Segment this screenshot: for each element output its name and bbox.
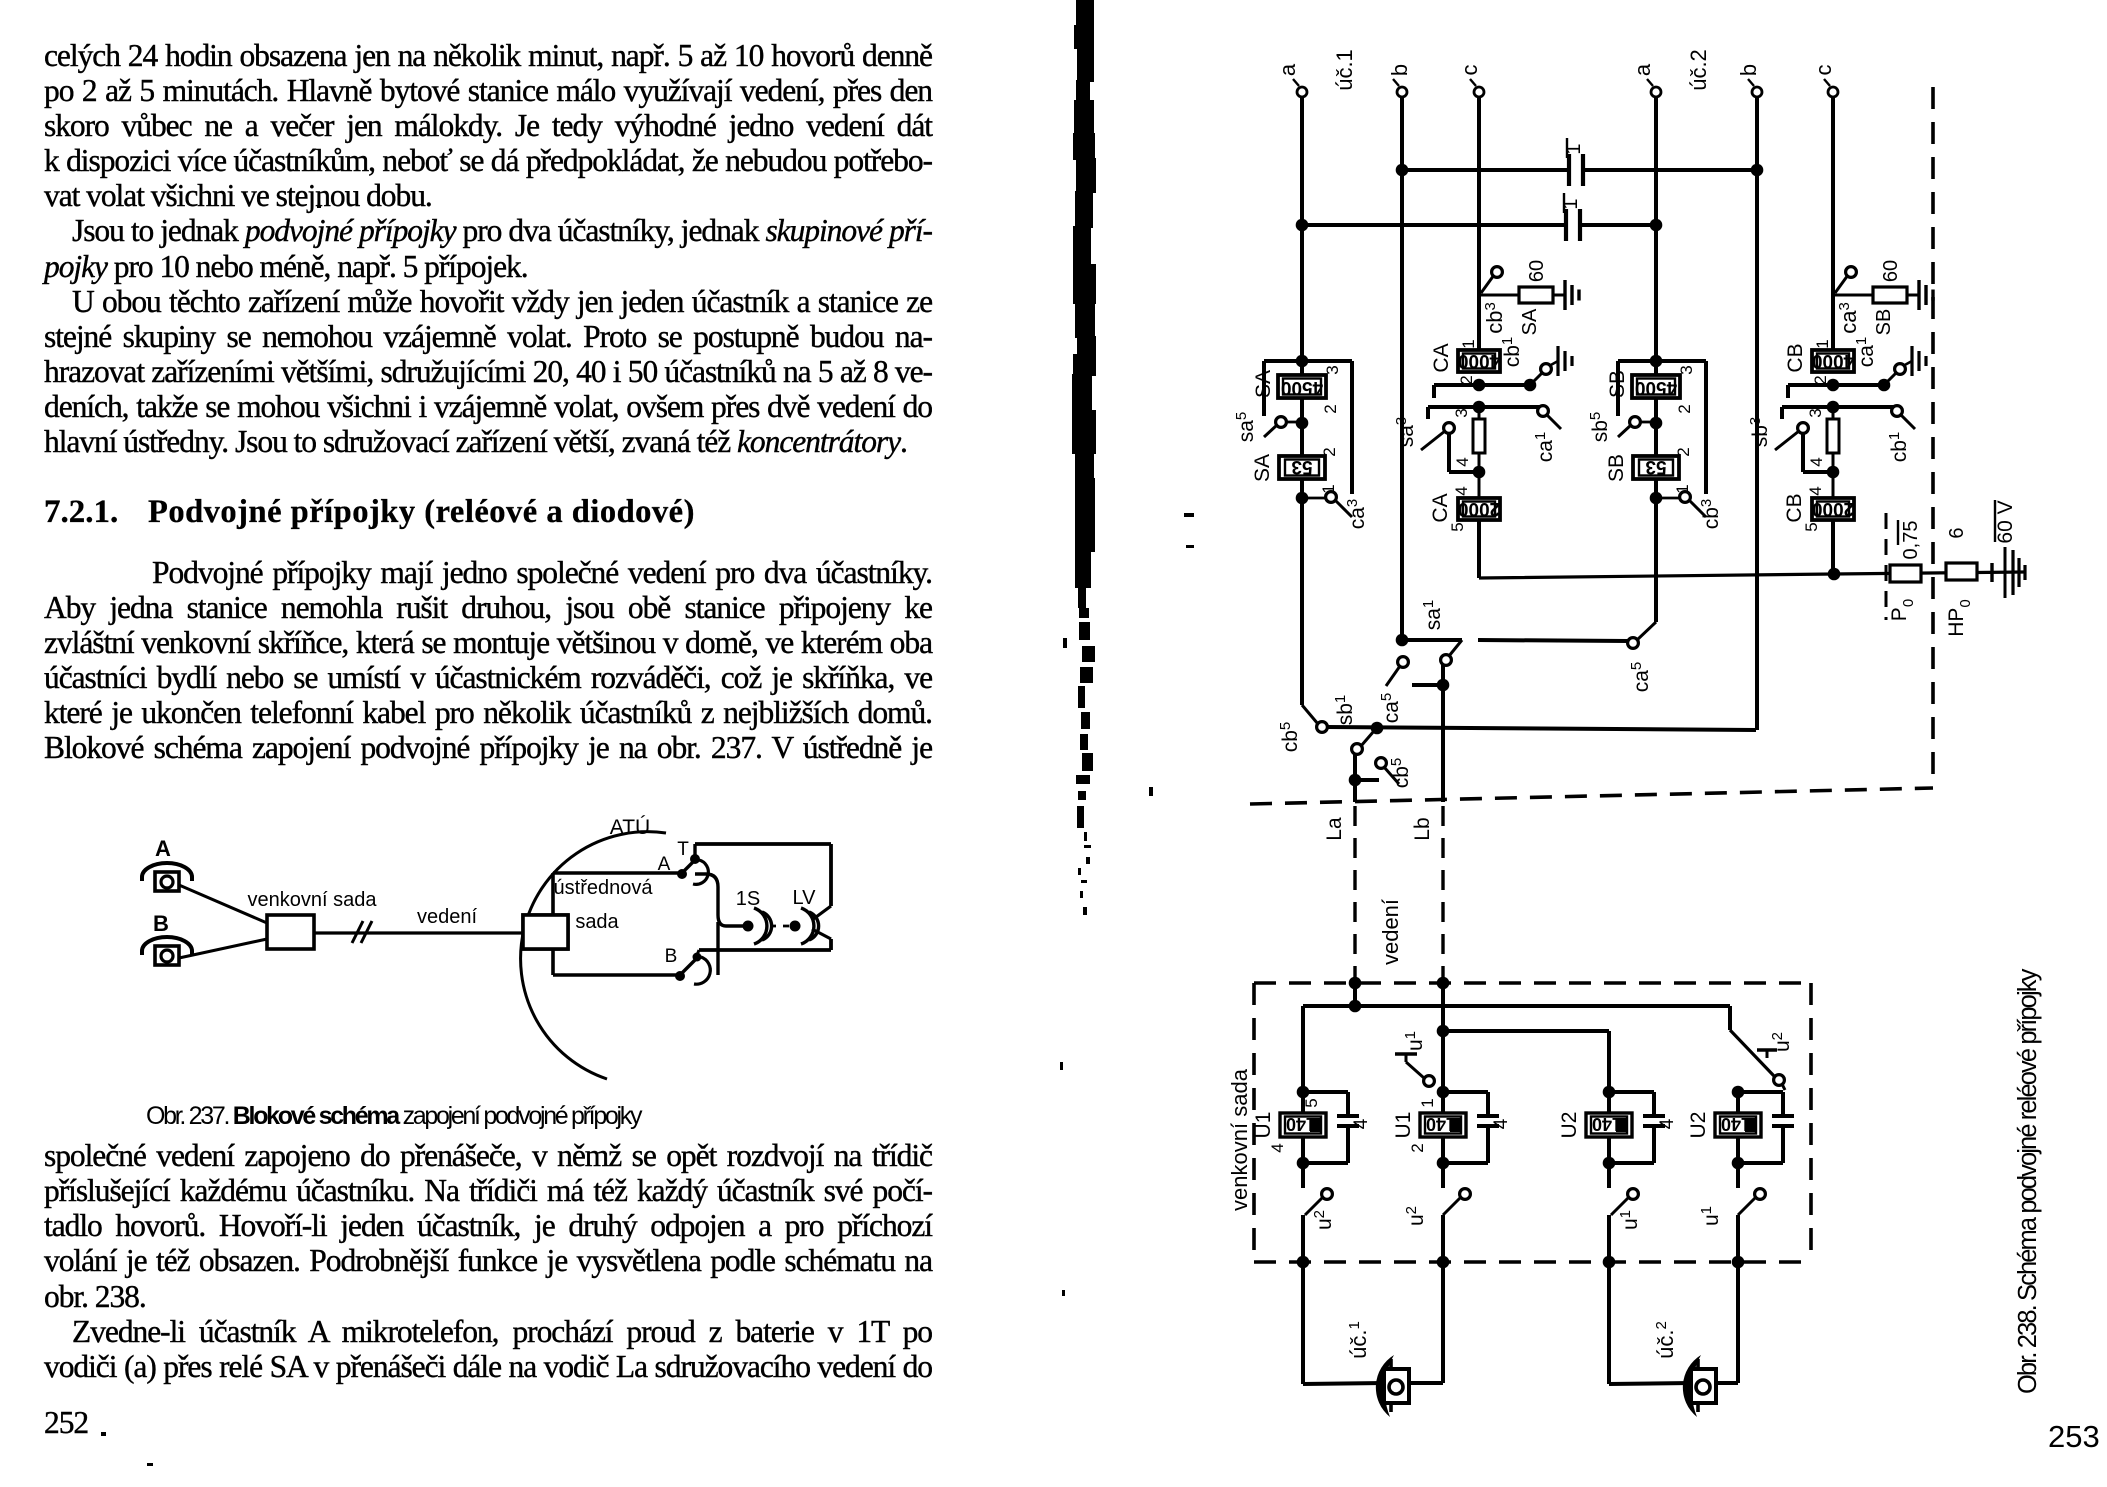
svg-text:CB: CB (1783, 493, 1806, 522)
svg-text:3: 3 (1806, 408, 1825, 417)
svg-text:LV: LV (793, 887, 817, 909)
svg-text:ca5: ca5 (1378, 693, 1403, 724)
svg-text:6: 6 (1946, 527, 1968, 538)
svg-text:u1: u1 (1617, 1210, 1642, 1230)
svg-text:SA: SA (1251, 454, 1274, 482)
svg-text:CB: CB (1784, 343, 1807, 372)
svg-text:4: 4 (1452, 486, 1471, 495)
svg-text:CA: CA (1429, 493, 1452, 522)
svg-text:sb1: sb1 (1332, 695, 1357, 726)
svg-text:SB: SB (1873, 309, 1895, 336)
svg-text:b: b (1736, 64, 1761, 76)
svg-text:Lb: Lb (1411, 817, 1434, 840)
svg-text:úč.1: úč.1 (1346, 1321, 1371, 1359)
svg-text:Obr. 238. Schéma podvojné rel: Obr. 238. Schéma podvojné reléové přípoj… (2014, 968, 2042, 1394)
svg-text:5: 5 (1802, 522, 1821, 531)
svg-text:ca3: ca3 (1344, 499, 1369, 530)
svg-text:1S: 1S (736, 888, 760, 910)
svg-text:cb5: cb5 (1388, 758, 1413, 789)
svg-text:1: 1 (1418, 1098, 1437, 1107)
svg-text:T: T (677, 839, 689, 860)
svg-text:u1: u1 (1698, 1206, 1723, 1226)
svg-text:4: 4 (1268, 1143, 1287, 1152)
svg-text:4: 4 (1491, 1118, 1512, 1129)
svg-text:cb3: cb3 (1482, 302, 1507, 334)
svg-text:sa1: sa1 (1420, 600, 1445, 631)
svg-text:140: 140 (1286, 1114, 1316, 1134)
svg-text:sb3: sb3 (1747, 417, 1772, 448)
svg-text:ca5: ca5 (1628, 662, 1653, 693)
svg-text:c: c (1811, 65, 1836, 76)
svg-text:P0: P0 (1888, 599, 1917, 621)
svg-text:2: 2 (1675, 404, 1694, 413)
svg-text:3: 3 (1677, 365, 1696, 374)
svg-text:U1: U1 (1392, 1112, 1415, 1139)
svg-text:ústřednová: ústřednová (554, 877, 654, 899)
svg-text:53: 53 (1291, 456, 1312, 477)
svg-text:sb5: sb5 (1587, 412, 1612, 443)
svg-text:U1: U1 (1252, 1112, 1275, 1139)
svg-text:sa3: sa3 (1393, 417, 1418, 448)
svg-text:4000: 4000 (1812, 350, 1854, 371)
svg-text:5: 5 (1302, 1098, 1321, 1107)
svg-text:4: 4 (1453, 457, 1472, 466)
svg-text:La: La (1323, 817, 1346, 841)
svg-text:u2: u2 (1403, 1206, 1428, 1226)
svg-text:CA: CA (1430, 343, 1453, 372)
svg-text:140: 140 (1426, 1114, 1456, 1134)
svg-text:4: 4 (1657, 1118, 1678, 1129)
svg-text:sada: sada (575, 911, 619, 933)
svg-text:a: a (1630, 63, 1655, 76)
svg-text:4000: 4000 (1458, 350, 1500, 371)
svg-text:2000: 2000 (1458, 498, 1500, 519)
svg-text:sa5: sa5 (1233, 412, 1258, 443)
svg-text:U2: U2 (1558, 1112, 1581, 1139)
svg-text:c: c (1457, 65, 1482, 76)
svg-text:venkovní sada: venkovní sada (248, 889, 378, 911)
svg-text:SA: SA (1519, 308, 1541, 335)
svg-text:u2: u2 (1311, 1210, 1336, 1230)
svg-text:u2: u2 (1769, 1032, 1794, 1052)
svg-text:u1: u1 (1402, 1031, 1427, 1051)
svg-text:2: 2 (1408, 1143, 1427, 1152)
svg-text:U2: U2 (1687, 1112, 1710, 1139)
svg-text:140: 140 (1721, 1114, 1751, 1134)
svg-text:ca1: ca1 (1532, 432, 1557, 463)
svg-text:úč.1: úč.1 (1332, 49, 1357, 91)
svg-text:úč.2: úč.2 (1686, 49, 1711, 91)
svg-text:cb1: cb1 (1499, 337, 1524, 368)
svg-text:Obr. 237. Blokové schéma zap: Obr. 237. Blokové schéma zapojení podvoj… (146, 1102, 643, 1130)
svg-text:53: 53 (1645, 456, 1666, 477)
svg-text:60 V: 60 V (1994, 500, 2017, 543)
svg-text:SA: SA (1252, 370, 1275, 398)
svg-text:4: 4 (1807, 457, 1826, 466)
svg-text:ATÚ: ATÚ (610, 816, 650, 839)
svg-text:A: A (155, 836, 171, 861)
svg-text:5: 5 (1448, 522, 1467, 531)
svg-text:ca3: ca3 (1836, 302, 1861, 334)
svg-text:A: A (658, 854, 671, 875)
svg-text:4500: 4500 (1281, 377, 1323, 398)
svg-text:cb3: cb3 (1698, 499, 1723, 530)
svg-text:HP0: HP0 (1945, 599, 1974, 637)
svg-text:1: 1 (1459, 339, 1478, 348)
svg-text:60: 60 (1526, 260, 1548, 282)
svg-text:vedení: vedení (417, 906, 477, 928)
svg-text:2: 2 (1674, 447, 1693, 456)
svg-text:3: 3 (1452, 408, 1471, 417)
svg-text:3: 3 (1323, 365, 1342, 374)
svg-text:B: B (153, 911, 169, 936)
svg-text:a: a (1275, 63, 1300, 76)
svg-text:úč.2: úč.2 (1653, 1321, 1678, 1359)
svg-text:cb1: cb1 (1886, 432, 1911, 463)
svg-text:SB: SB (1605, 454, 1628, 482)
svg-text:1: 1 (1813, 339, 1832, 348)
svg-text:253: 253 (2048, 1419, 2100, 1454)
svg-text:ca1: ca1 (1853, 337, 1878, 368)
svg-text:4: 4 (1806, 486, 1825, 495)
svg-text:2000: 2000 (1812, 498, 1854, 519)
svg-text:4500: 4500 (1635, 377, 1677, 398)
svg-text:b: b (1387, 64, 1412, 76)
svg-text:vedení: vedení (1378, 899, 1403, 965)
svg-text:60: 60 (1880, 260, 1902, 282)
svg-text:2: 2 (1320, 447, 1339, 456)
svg-text:4: 4 (1351, 1118, 1372, 1129)
svg-text:venkovní sada: venkovní sada (1227, 1068, 1252, 1211)
svg-text:0,75: 0,75 (1900, 521, 1922, 560)
svg-text:2: 2 (1321, 404, 1340, 413)
svg-text:140: 140 (1592, 1114, 1622, 1134)
svg-text:B: B (665, 946, 678, 967)
svg-text:cb5: cb5 (1277, 722, 1302, 753)
svg-text:SB: SB (1606, 370, 1629, 398)
